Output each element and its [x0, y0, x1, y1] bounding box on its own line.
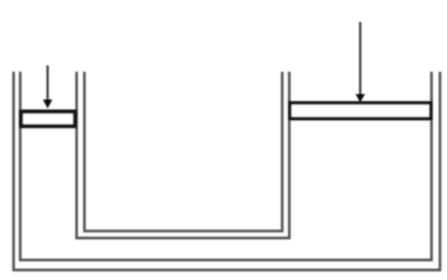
small force arrow head (left) [43, 100, 51, 108]
vessel outer wall outline [14, 72, 440, 270]
vessel inner wall outline [20, 72, 431, 260]
large force arrow shaft (right) [359, 22, 361, 95]
small piston (left) [21, 112, 75, 127]
large force arrow head (right) [356, 94, 364, 102]
central block outer outline [77, 72, 290, 238]
small force arrow shaft (left) [46, 65, 48, 100]
large piston (right) [290, 103, 431, 119]
central block inner outline [84, 72, 282, 231]
